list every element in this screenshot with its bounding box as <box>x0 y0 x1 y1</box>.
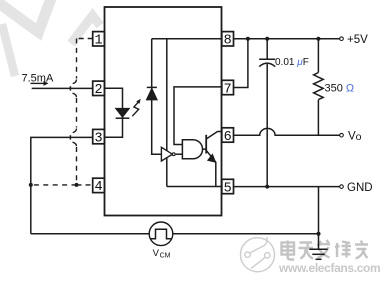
wire: GND down to bottom rail <box>318 187 320 234</box>
wire: internal bias line to pin5 rail <box>166 39 168 187</box>
pin 6 <box>222 128 234 145</box>
svg-text:350 Ω: 350 Ω <box>325 83 355 95</box>
junction dot dashed vertical/pin4 dash <box>75 183 79 187</box>
photodiode D2 <box>146 87 157 100</box>
wire: photodiode branch vertical <box>152 39 162 155</box>
Vo terminal <box>340 133 344 137</box>
wire: pin 3 wire and left rail down to bottom <box>31 137 93 233</box>
dashed guard: pin1 stub and vertical <box>31 39 93 185</box>
pin 3 <box>93 129 105 146</box>
junction dot left rail/pin4 dash <box>29 183 33 187</box>
svg-text:www.elecfans.com: www.elecfans.com <box>278 261 380 275</box>
svg-text:Vo: Vo <box>348 131 362 144</box>
transistor Q1 <box>206 132 222 187</box>
svg-text:7.5mA: 7.5mA <box>22 73 54 85</box>
resistor R1 350 ohm <box>314 39 324 136</box>
GND terminal <box>340 185 344 189</box>
pin 1 <box>93 32 105 49</box>
svg-text:5: 5 <box>224 181 232 196</box>
watermark top-left <box>0 0 100 76</box>
IC body U1 <box>105 7 222 216</box>
light arrow (optical coupling) <box>132 99 140 117</box>
svg-text:CM: CM <box>160 252 171 259</box>
wire: pin 7 to gate upper input <box>174 87 222 145</box>
svg-text:0.01 μF: 0.01 μF <box>275 57 309 68</box>
LED D1 (emitter diode) <box>116 108 130 118</box>
AND gate G1 <box>182 140 202 159</box>
svg-text:+5V: +5V <box>347 34 368 46</box>
capacitor C1 0.01uF <box>259 39 275 187</box>
junction dot cap/+5V <box>265 37 269 41</box>
junction dot pin7/+5V <box>246 37 250 41</box>
wire: top inner rail to pin 8 <box>152 38 222 40</box>
wire: bottom rail right segment <box>173 233 319 235</box>
watermark logo bottom-right <box>241 237 275 272</box>
wire: GND line from pin 5 <box>234 186 340 188</box>
watermark chinese text <box>282 240 369 260</box>
svg-text:4: 4 <box>94 180 102 195</box>
junction dot bottom rail/ground <box>317 232 321 236</box>
svg-text:2: 2 <box>94 83 102 98</box>
wire: pin2 to LED to pin3 <box>105 88 123 137</box>
wire: input wire into pin 2 <box>32 87 93 89</box>
pin 2 <box>93 81 105 98</box>
buffer amplifier A1 <box>161 147 172 161</box>
wire: buffer output to gate <box>176 153 183 155</box>
junction dot resistor/+5V <box>316 37 320 41</box>
pin 5 <box>222 179 234 196</box>
VCM pulse source <box>149 222 173 246</box>
svg-text:V: V <box>153 248 160 259</box>
wire: bottom rail left segment <box>31 233 149 235</box>
svg-text:6: 6 <box>224 130 232 145</box>
inversion bubble <box>172 153 175 156</box>
wire: Vo line from pin 6 with hop <box>234 128 340 135</box>
wire: gate output to transistor base <box>203 148 207 150</box>
svg-text:8: 8 <box>224 34 232 49</box>
tick on pin2 wire <box>69 86 71 90</box>
pin 7 <box>222 80 234 97</box>
wire: pin 7 jog up to +5V rail <box>234 39 248 88</box>
wire: +5V rail from pin 8 <box>234 38 340 40</box>
svg-text:7: 7 <box>224 82 232 97</box>
svg-text:1: 1 <box>94 34 102 49</box>
dashed stub into pin 4 <box>77 184 93 186</box>
wire: pin 5 internal rail <box>167 186 222 188</box>
junction dot cap/GND <box>265 185 269 189</box>
tick on pin3 wire <box>69 135 71 139</box>
ground symbol <box>309 234 327 259</box>
current direction arrow <box>31 81 49 86</box>
+5V terminal <box>340 37 344 41</box>
svg-text:3: 3 <box>94 131 102 146</box>
pin 4 <box>93 178 105 195</box>
pin 8 <box>222 32 234 49</box>
svg-text:GND: GND <box>347 182 373 194</box>
